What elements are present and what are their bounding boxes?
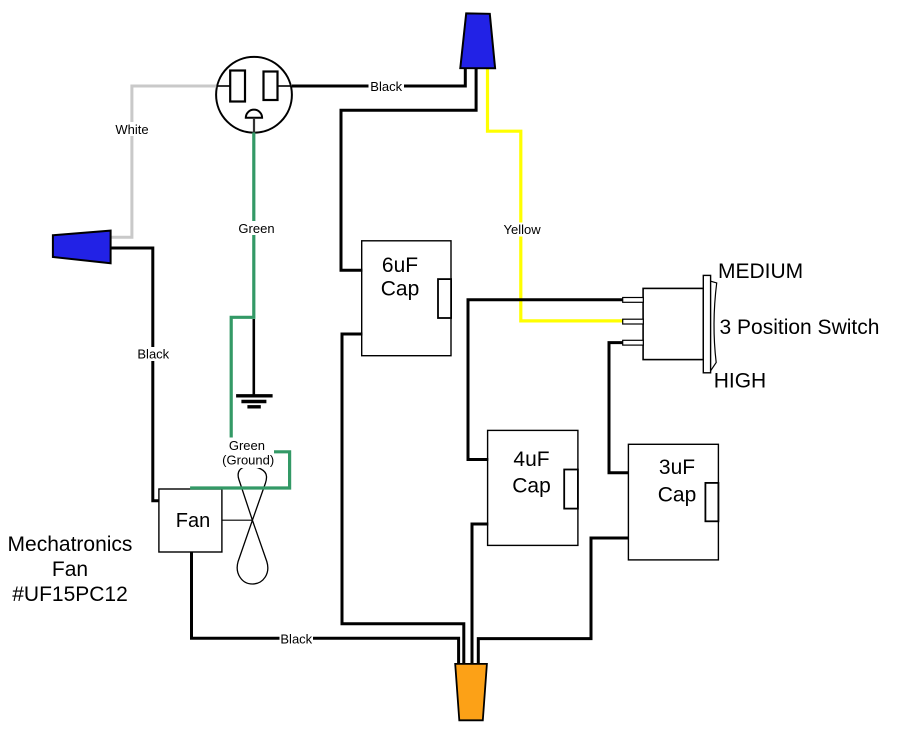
- svg-text:Fan: Fan: [52, 558, 88, 581]
- svg-text:Cap: Cap: [381, 278, 420, 301]
- svg-text:4uF: 4uF: [513, 448, 549, 471]
- wirenut WN2 (left, blue): [53, 231, 111, 264]
- wire black: top wirenut to 6uF cap top: [341, 66, 476, 270]
- svg-text:Black: Black: [137, 347, 169, 362]
- label Green (Ground): [222, 438, 274, 468]
- svg-text:3uF: 3uF: [659, 456, 695, 479]
- wire black: plug to top wirenut: [292, 66, 465, 86]
- wire black: fan bottom to bottom wirenut: [192, 553, 459, 666]
- switch SW1 body: [643, 288, 703, 359]
- svg-text:HIGH: HIGH: [714, 370, 767, 393]
- switch SW1 pin 1: [623, 298, 644, 303]
- svg-text:3 Position Switch: 3 Position Switch: [720, 316, 880, 339]
- switch SW1 pin 3: [623, 340, 644, 345]
- fan F1 box: [159, 489, 222, 552]
- wire white (gray): plug to left wirenut: [108, 86, 216, 237]
- fan F1 blade link: [222, 519, 253, 521]
- wire black: 4uF cap bottom to bottom wirenut: [472, 524, 488, 665]
- svg-text:Green: Green: [238, 221, 274, 236]
- wire green: plug to ground label: [231, 133, 254, 438]
- capacitor C1 terminal: [438, 279, 451, 318]
- capacitor C3 terminal: [705, 483, 718, 521]
- wire black: left wirenut to fan: [108, 248, 159, 501]
- label White: [114, 122, 150, 137]
- ground: [236, 319, 273, 407]
- svg-text:Fan: Fan: [176, 510, 210, 532]
- svg-text:Mechatronics: Mechatronics: [8, 533, 133, 556]
- svg-text:Cap: Cap: [512, 475, 551, 498]
- label Black (left wire): [137, 347, 169, 362]
- label Mechatronics Fan #UF15PC12: [8, 533, 133, 606]
- label Green: [237, 221, 277, 236]
- switch SW1 pin 2: [623, 319, 644, 324]
- svg-text:White: White: [115, 122, 148, 137]
- wirenut WN1 (top, blue): [460, 13, 495, 68]
- plug P1 (outlet): [216, 57, 292, 133]
- label Yellow: [503, 222, 542, 237]
- capacitor C1 box (6uF Cap): [362, 241, 451, 356]
- wire black: 3uF cap bottom to bottom wirenut: [478, 538, 629, 665]
- wire green: ground label to fan: [190, 452, 290, 488]
- svg-text:6uF: 6uF: [382, 254, 418, 277]
- capacitor C2 box (4uF Cap): [488, 430, 578, 545]
- wire black: 6uF cap bottom to bottom wirenut: [342, 334, 464, 665]
- wirenut WN3 (bottom, orange): [455, 664, 487, 720]
- capacitor C3 box (3uF Cap): [628, 444, 718, 560]
- svg-text:(Ground): (Ground): [222, 453, 274, 468]
- wire black: switch pin3 to 3uF cap top: [609, 343, 629, 473]
- wire black: switch pin1 to 4uF cap top: [468, 300, 624, 460]
- label Black (top wire): [369, 79, 405, 94]
- fan F1 blades: [237, 466, 268, 584]
- capacitor C2 terminal: [564, 470, 578, 509]
- svg-text:Yellow: Yellow: [504, 222, 542, 237]
- switch SW1 paddle: [711, 281, 717, 371]
- wire yellow: wirenut to switch pin2: [488, 66, 625, 321]
- svg-text:Black: Black: [280, 632, 312, 647]
- svg-text:#UF15PC12: #UF15PC12: [12, 583, 128, 606]
- svg-text:MEDIUM: MEDIUM: [718, 260, 803, 283]
- svg-text:Green: Green: [229, 438, 265, 453]
- svg-text:Cap: Cap: [658, 484, 697, 507]
- svg-text:Black: Black: [370, 79, 402, 94]
- label Black (bottom wire): [280, 632, 314, 647]
- switch SW1 bezel: [703, 275, 710, 372]
